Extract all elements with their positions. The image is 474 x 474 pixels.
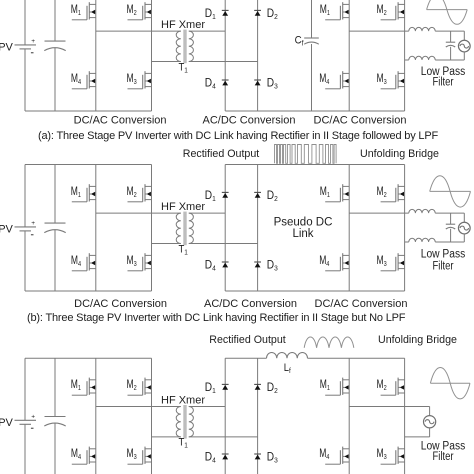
- waveform rectified humps (c): [304, 337, 354, 348]
- inductor LPF bottom: [409, 238, 435, 242]
- wire bridge midpoint to primary bottom: [152, 436, 181, 438]
- wire leg M2/M3: [151, 165, 153, 292]
- diode D3: [254, 80, 261, 85]
- svg-text:Low Pass: Low Pass: [421, 248, 466, 260]
- wire left bus lower: [24, 231, 26, 291]
- wire cap branch lower: [54, 423, 56, 474]
- transistor unfolding M2: [381, 184, 405, 202]
- wire top bus left block: [25, 357, 152, 359]
- wire unfolding leg M2/M3: [404, 358, 406, 474]
- wire unfolding leg M2/M3: [404, 165, 406, 292]
- transistor unfolding M1: [325, 2, 349, 20]
- wire left bus lower: [24, 49, 26, 111]
- wire unfolding midpoint top to filter: [349, 212, 409, 214]
- wire source bottom: [463, 52, 465, 60]
- wire bridge midpoint to primary top: [96, 30, 181, 32]
- wire unfolding midpoint bottom to source (c): [405, 436, 430, 438]
- svg-text:DC/AC Conversion: DC/AC Conversion: [74, 115, 167, 127]
- svg-text:HF Xmer: HF Xmer: [161, 394, 205, 406]
- wire secondary top lead: [189, 212, 225, 214]
- wire right corner down to source: [463, 213, 465, 222]
- waveform PWM pulses (b): [275, 145, 337, 164]
- wire cap branch lower: [54, 230, 56, 291]
- svg-text:Filter: Filter: [433, 451, 454, 463]
- AC output source: [458, 222, 470, 234]
- capacitor Cf: [304, 37, 319, 39]
- transformer T1: [176, 212, 193, 246]
- transistor unfolding M4: [325, 71, 349, 89]
- PV source symbol: [15, 413, 37, 428]
- capacitor DC link: [44, 223, 65, 233]
- PV source symbol: [15, 38, 37, 53]
- transistor unfolding M2: [381, 2, 405, 20]
- wire left bus upper: [24, 358, 26, 420]
- transistor unfolding M3: [381, 447, 405, 465]
- wire secondary bottom lead: [189, 61, 258, 63]
- wire unfolding leg M1/M4: [348, 165, 350, 292]
- wire secondary top lead: [189, 406, 225, 408]
- wire bridge midpoint to primary top: [96, 212, 181, 214]
- transistor M1: [72, 378, 96, 396]
- diode D1: [222, 10, 229, 15]
- svg-text:PV: PV: [0, 417, 14, 429]
- svg-text:AC/DC Conversion: AC/DC Conversion: [203, 115, 296, 127]
- transistor unfolding M4: [325, 253, 349, 271]
- wire source bottom: [463, 234, 465, 242]
- diode D1: [222, 192, 229, 197]
- wire filter top right: [435, 212, 464, 214]
- wire top bus rectifier to Lf (c): [225, 357, 266, 359]
- transistor M2: [128, 2, 152, 20]
- wire right corner down to source: [463, 31, 465, 40]
- diode D4: [222, 80, 229, 85]
- transistor unfolding M1: [325, 184, 349, 202]
- wire corner down to source (c): [429, 407, 431, 416]
- wire unfolding leg M1/M4: [348, 0, 350, 111]
- transistor M3: [128, 253, 152, 271]
- capacitor LPF: [446, 223, 455, 225]
- svg-text:DC/AC Conversion: DC/AC Conversion: [74, 298, 167, 310]
- svg-text:DC/AC Conversion: DC/AC Conversion: [315, 298, 408, 310]
- wire LPF cap branch lower: [450, 229, 452, 242]
- capacitor DC link: [44, 41, 65, 51]
- wire bottom bus left block: [25, 110, 152, 112]
- svg-text:Unfolding Bridge: Unfolding Bridge: [360, 148, 439, 160]
- wire Cf branch upper: [311, 0, 313, 38]
- svg-text:(a): Three Stage PV Inverter w: (a): Three Stage PV Inverter with DC Lin…: [38, 130, 439, 142]
- wire unfolding midpoint bottom to filter: [405, 59, 409, 61]
- svg-text:DC/AC Conversion: DC/AC Conversion: [314, 115, 407, 127]
- transistor unfolding M3: [381, 71, 405, 89]
- wire left bus upper: [24, 0, 26, 45]
- wire leg M2/M3: [151, 358, 153, 474]
- svg-text:HF Xmer: HF Xmer: [161, 201, 205, 213]
- wire top bus Lf to unfolding (c): [308, 357, 405, 359]
- wire top bus right block (b): [225, 164, 404, 166]
- transistor unfolding M3: [381, 253, 405, 271]
- inductor LPF top: [409, 27, 435, 31]
- wire cap branch upper: [54, 165, 56, 224]
- waveform output sine (b): [430, 176, 471, 207]
- wire rectifier leg D2/D3: [257, 358, 259, 474]
- AC output source (c): [424, 416, 436, 428]
- wire cap branch upper: [54, 358, 56, 416]
- svg-text:+: +: [31, 220, 35, 227]
- wire leg M2/M3: [151, 0, 153, 111]
- transistor unfolding M2: [381, 378, 405, 396]
- wire rectifier leg D1/D4: [224, 165, 226, 292]
- inductor LPF bottom: [409, 56, 435, 60]
- wire left bus lower: [24, 424, 26, 474]
- diode D4: [222, 454, 229, 459]
- wire unfolding midpoint bottom to filter: [405, 241, 409, 243]
- transistor M4: [72, 71, 96, 89]
- wire filter bottom right: [435, 59, 464, 61]
- wire rectifier leg D2/D3: [257, 0, 259, 111]
- wire Cf branch lower: [311, 44, 313, 111]
- AC output source: [458, 40, 470, 52]
- transistor M4: [72, 253, 96, 271]
- diode D3: [254, 454, 261, 459]
- wire cap branch upper: [54, 0, 56, 41]
- wire LPF cap branch upper: [450, 213, 452, 224]
- wire bottom bus right block (b): [225, 290, 404, 292]
- wire filter bottom right: [435, 241, 464, 243]
- svg-text:Unfolding Bridge: Unfolding Bridge: [378, 334, 457, 346]
- wire unfolding leg M1/M4: [348, 358, 350, 474]
- wire secondary bottom lead: [189, 436, 258, 438]
- diode D4: [222, 262, 229, 267]
- svg-text:PV: PV: [0, 224, 14, 236]
- svg-text:+: +: [31, 38, 35, 45]
- transformer T1: [176, 405, 193, 439]
- wire LPF cap branch upper: [450, 31, 452, 42]
- wire unfolding midpoint top to source (c): [349, 406, 429, 408]
- wire leg M1/M4: [95, 358, 97, 474]
- wire secondary top lead: [189, 30, 225, 32]
- transistor M4: [72, 447, 96, 465]
- wire rectifier leg D1/D4: [224, 0, 226, 111]
- waveform output sine (c): [430, 368, 470, 399]
- transistor M3: [128, 447, 152, 465]
- wire LPF cap branch lower: [450, 47, 452, 60]
- wire bridge midpoint to primary bottom: [152, 243, 181, 245]
- diode D2: [254, 10, 261, 15]
- wire bottom bus right block (a): [225, 110, 404, 112]
- svg-text:Rectified Output: Rectified Output: [183, 148, 260, 160]
- diode D3: [254, 262, 261, 267]
- PV source symbol: [15, 220, 37, 235]
- wire top bus left block: [25, 164, 152, 166]
- transistor M1: [72, 184, 96, 202]
- wire left bus upper: [24, 165, 26, 227]
- svg-text:Filter: Filter: [433, 76, 454, 88]
- wire unfolding leg M2/M3: [404, 0, 406, 111]
- waveform output sine (a): [427, 0, 468, 24]
- wire bridge midpoint to primary top: [96, 406, 181, 408]
- inductor Lf: [266, 352, 307, 358]
- inductor LPF top: [409, 209, 435, 213]
- wire source bottom (c): [429, 428, 431, 437]
- svg-text:PV: PV: [0, 42, 14, 54]
- wire leg M1/M4: [95, 165, 97, 292]
- transistor M1: [72, 2, 96, 20]
- svg-text:AC/DC Conversion: AC/DC Conversion: [204, 298, 297, 310]
- capacitor LPF: [446, 41, 455, 43]
- svg-text:Rectified Output: Rectified Output: [209, 334, 286, 346]
- transistor unfolding M1: [325, 378, 349, 396]
- transformer T1: [176, 30, 193, 64]
- diode D1: [222, 384, 229, 389]
- svg-text:(b): Three Stage PV Inverter w: (b): Three Stage PV Inverter with DC Lin…: [27, 312, 406, 324]
- svg-text:+: +: [31, 413, 35, 420]
- wire unfolding midpoint top to filter: [349, 30, 409, 32]
- transistor M2: [128, 184, 152, 202]
- svg-text:HF Xmer: HF Xmer: [161, 19, 205, 31]
- wire secondary bottom lead: [189, 243, 258, 245]
- diode D2: [254, 384, 261, 389]
- transistor M3: [128, 71, 152, 89]
- svg-text:Pseudo DC: Pseudo DC: [274, 217, 333, 229]
- wire leg M1/M4: [95, 0, 97, 111]
- transistor M2: [128, 378, 152, 396]
- wire cap branch lower: [54, 48, 56, 111]
- wire rectifier leg D2/D3: [257, 165, 259, 292]
- transistor unfolding M4: [325, 447, 349, 465]
- wire bridge midpoint to primary bottom: [152, 61, 181, 63]
- wire bottom bus left block: [25, 290, 152, 292]
- svg-text:Link: Link: [292, 228, 313, 240]
- diode D2: [254, 192, 261, 197]
- capacitor DC link: [44, 417, 65, 427]
- svg-text:Filter: Filter: [433, 260, 454, 272]
- wire filter top right: [435, 30, 464, 32]
- wire rectifier leg D1/D4: [224, 358, 226, 474]
